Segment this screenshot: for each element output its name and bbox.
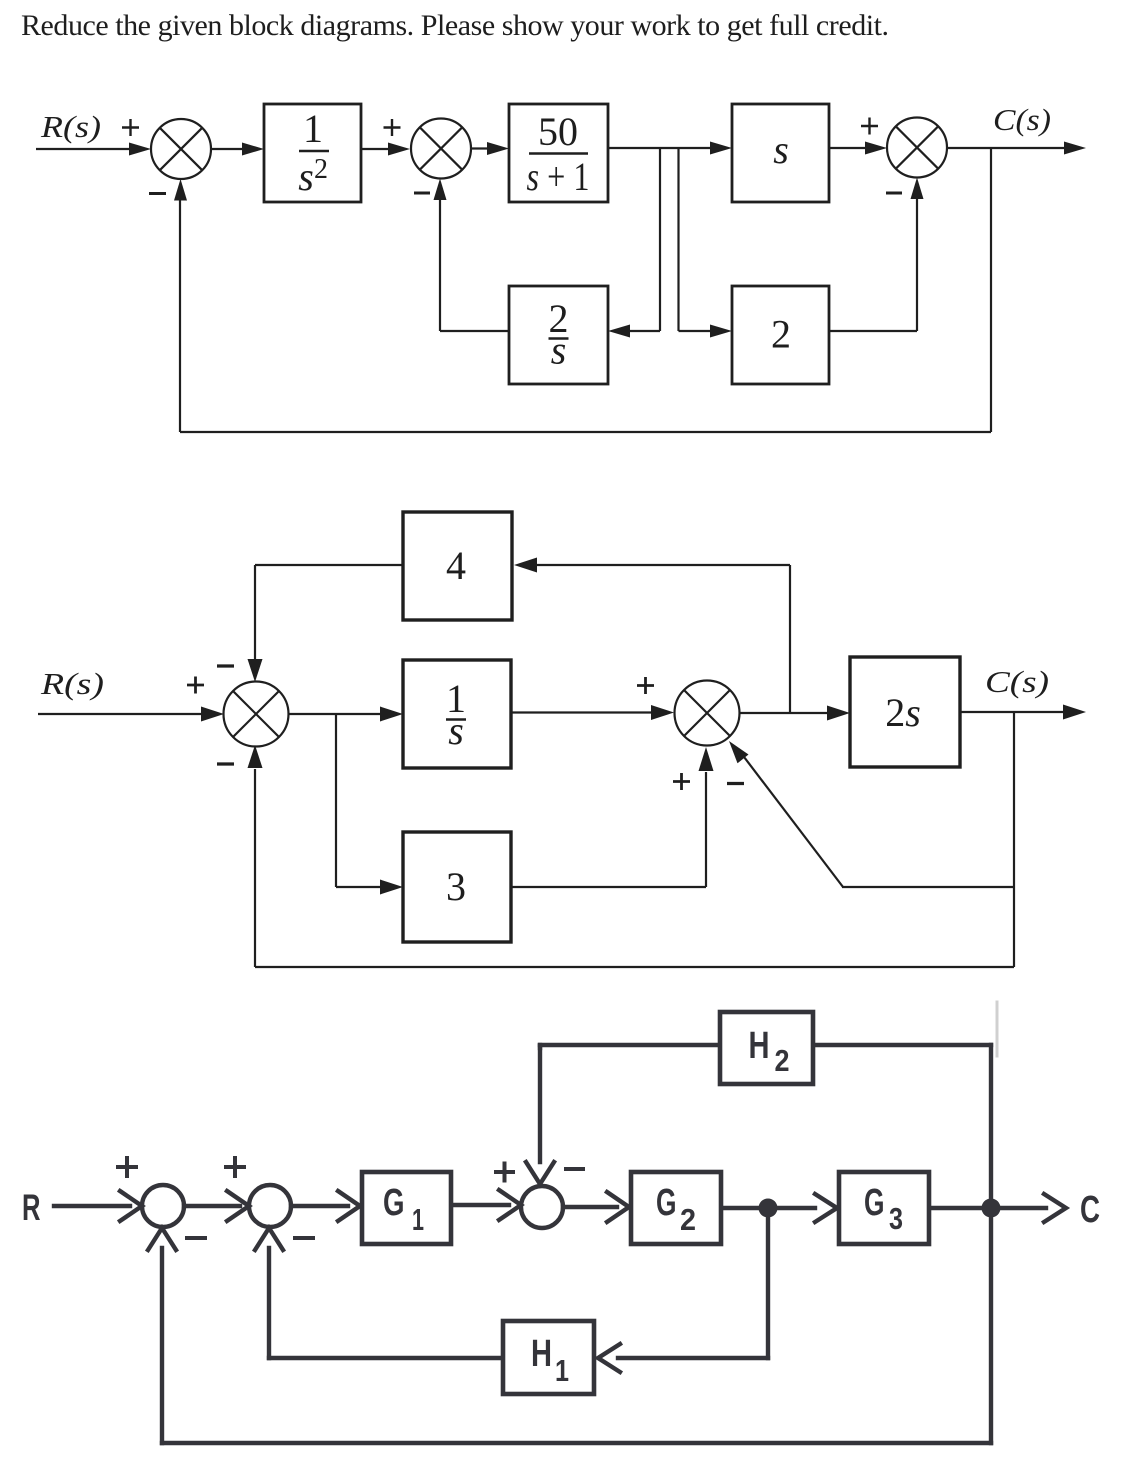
- block G1: [362, 1172, 451, 1244]
- wire S3 to C(s) output: [947, 147, 1065, 149]
- wire takeoff into block 2 left side: [679, 330, 712, 332]
- wire H2 feedback down into A3: [538, 1046, 542, 1162]
- wire R(s) input to summer S4: [38, 713, 203, 715]
- block 1/s^2: [264, 104, 361, 202]
- wire outer feedback to S4 bottom: [255, 966, 1014, 968]
- wire from output vertical to diagonal: [842, 886, 1014, 888]
- summing junction S4: [224, 682, 289, 747]
- wire 50/(s+1) to block s: [608, 147, 711, 149]
- block 2/s: [509, 286, 608, 384]
- minus sign at summer A3 top: [566, 1167, 583, 1171]
- wire A3 to block G2: [563, 1205, 617, 1209]
- scan artifact faint line: [996, 1002, 999, 1056]
- minus sign at summer S1 feedback: [149, 192, 166, 195]
- plus sign at summer A3 input: [496, 1164, 513, 1181]
- svg-text:2: 2: [775, 1043, 790, 1078]
- node C output label: [1080, 1189, 1100, 1231]
- svg-text:R(s): R(s): [40, 666, 104, 701]
- title text: [21, 9, 889, 42]
- svg-text:3: 3: [889, 1201, 903, 1236]
- block H1: [503, 1321, 594, 1394]
- wire R(s) input to summer S1: [36, 148, 130, 150]
- svg-text:s + 1: s + 1: [527, 154, 590, 199]
- svg-text:G: G: [383, 1182, 405, 1224]
- wire takeoff up toward block 4: [789, 565, 791, 713]
- plus sign at summer S4 input: [187, 677, 204, 694]
- minus sign at summer S3 feedback: [886, 192, 902, 195]
- wire A1 to summer A2: [184, 1204, 240, 1208]
- block 2s: [850, 657, 960, 767]
- svg-text:Reduce the given block diagram: Reduce the given block diagrams. Please …: [21, 9, 889, 42]
- node R input label diagram 3: [22, 1187, 41, 1228]
- node C(s) output label diagram 1: [993, 102, 1051, 137]
- svg-text:s: s: [773, 127, 789, 172]
- svg-text:4: 4: [446, 543, 466, 588]
- svg-text:1: 1: [555, 1353, 569, 1388]
- node C(s) output label diagram 2: [985, 664, 1049, 699]
- minus sign at summer S5 bottom right: [727, 782, 744, 785]
- wire 1/s to summer S5: [511, 711, 653, 713]
- svg-text:3: 3: [446, 864, 466, 909]
- wire A2 to block G1: [291, 1204, 348, 1208]
- wire G2 to node dot: [723, 1206, 762, 1210]
- summing junction S3: [887, 118, 947, 178]
- svg-text:50: 50: [538, 109, 578, 154]
- node dot before C: [982, 1199, 1001, 1218]
- plus sign at summer A2 input: [226, 1158, 244, 1176]
- summing junction A2: [249, 1185, 291, 1227]
- svg-text:2: 2: [680, 1202, 696, 1237]
- wire block 2 output up to summer S3: [829, 330, 917, 332]
- svg-text:C: C: [1080, 1189, 1100, 1231]
- wire outer feedback C(s) to S1: [990, 148, 992, 432]
- wire node dot down to H1 input: [766, 1208, 770, 1358]
- wire S4 to block 1/s: [288, 713, 381, 715]
- block G3: [839, 1172, 929, 1244]
- wire takeoff vertical to 2: [677, 148, 679, 331]
- summing junction A1: [142, 1185, 184, 1227]
- summing junction S1: [151, 119, 211, 179]
- wire G1 to summer A3: [453, 1203, 509, 1207]
- svg-text:s: s: [448, 708, 464, 753]
- plus sign at summer S5 input: [637, 677, 654, 694]
- wire H1 feedback up into A2: [267, 1248, 271, 1358]
- svg-text:H: H: [749, 1025, 770, 1067]
- wire takeoff down to block 3: [335, 714, 337, 887]
- wire S5 to block 2s: [739, 712, 828, 714]
- node R(s) input label diagram 1: [40, 109, 101, 144]
- wire takeoff vertical to 2/s: [659, 148, 661, 331]
- wire R to summer A1: [54, 1204, 130, 1208]
- minus sign at summer A1: [187, 1236, 205, 1240]
- minus sign at summer S4 bottom: [217, 762, 234, 765]
- plus sign at summer S3 input: [861, 118, 878, 135]
- minus sign at summer A2: [295, 1236, 313, 1240]
- svg-text:C(s): C(s): [993, 102, 1051, 137]
- svg-text:G: G: [864, 1182, 885, 1224]
- block 1/s: [403, 660, 511, 768]
- block 3: [403, 832, 511, 942]
- wire S1 to block 1/s^2: [211, 148, 243, 150]
- plus sign at summer A1 input: [118, 1158, 136, 1176]
- plus sign at summer S2 input: [384, 119, 401, 136]
- svg-text:1: 1: [412, 1202, 424, 1237]
- svg-text:s: s: [298, 154, 314, 199]
- wire block 3 output up to summer S5 bottom: [511, 886, 706, 888]
- wire G3 to node dot 2: [931, 1206, 985, 1210]
- minus sign at summer S2 feedback: [414, 192, 430, 195]
- wire 1/s^2 to summer S2: [361, 148, 389, 150]
- block 50/(s+1): [509, 104, 608, 202]
- block s: [732, 104, 829, 202]
- wire takeoff down from output: [1013, 712, 1015, 967]
- svg-text:H: H: [531, 1333, 552, 1375]
- wire 2s to C(s) output: [960, 711, 1064, 713]
- wire block 4 output to summer S4 top: [255, 564, 403, 566]
- svg-text:s: s: [551, 328, 567, 373]
- wire S2 to block 50/(s+1): [471, 147, 488, 149]
- svg-text:C(s): C(s): [985, 664, 1049, 699]
- wire node dot to C output: [997, 1206, 1046, 1210]
- wire H1 output to A2 branch: [269, 1356, 501, 1360]
- wire s to summer S3: [829, 147, 866, 149]
- wire C takeoff to H2 input: [815, 1043, 991, 1047]
- svg-text:2s: 2s: [885, 690, 921, 735]
- node dot after G2: [759, 1199, 778, 1218]
- svg-text:2: 2: [314, 154, 328, 185]
- wire takeoff to block 4 input: [536, 564, 790, 566]
- block H2: [720, 1012, 813, 1084]
- plus sign at summer S1 input: [122, 119, 139, 136]
- summing junction S5: [675, 681, 740, 746]
- block G2: [631, 1172, 721, 1244]
- block 4: [403, 512, 512, 620]
- wire takeoff into 2/s right side: [630, 330, 660, 332]
- minus sign at summer S4 top: [217, 664, 234, 667]
- wire outer feedback up into A1: [160, 1248, 164, 1443]
- wire 2/s output up to summer S2: [440, 330, 509, 332]
- wire H2 output left to A3 branch: [540, 1043, 718, 1047]
- svg-text:R: R: [22, 1187, 41, 1228]
- summing junction A3: [521, 1186, 563, 1228]
- svg-text:1: 1: [303, 106, 323, 151]
- svg-text:R(s): R(s): [40, 109, 101, 144]
- plus sign at summer S5 bottom: [673, 773, 690, 790]
- svg-text:G: G: [656, 1182, 677, 1224]
- wire bottom outer feedback: [162, 1441, 991, 1445]
- node R(s) input label diagram 2: [40, 666, 104, 701]
- summing junction S2: [411, 119, 471, 179]
- svg-text:2: 2: [771, 312, 791, 357]
- wire diagonal feedback into summer S5: [741, 753, 843, 887]
- wire node dot to block G3: [774, 1206, 815, 1210]
- block 2: [732, 286, 829, 384]
